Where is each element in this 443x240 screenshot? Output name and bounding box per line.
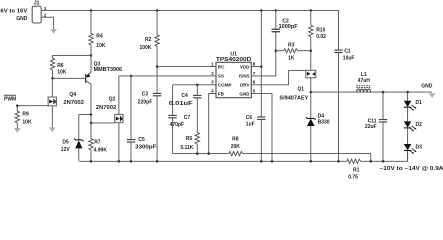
svg-text:SS: SS [218,74,224,79]
svg-text:B330: B330 [318,119,330,125]
resistor R5 [180,133,199,154]
svg-text:10K: 10K [96,43,106,49]
svg-text:220pF: 220pF [138,100,152,106]
svg-text:J1: J1 [34,1,40,7]
LED D2 [404,121,422,144]
svg-text:3300pF: 3300pF [135,145,156,151]
wire pin5 GND [251,94,272,162]
svg-text:R2: R2 [145,37,152,43]
transistor Q4 2N7002 [48,80,84,128]
wire base to Q3 [53,77,86,79]
svg-text:47uH: 47uH [358,78,371,84]
resistor R9 [15,106,32,128]
capacitor C3 [138,91,162,161]
wire FB lower rail [173,153,229,155]
connector J1 [32,6,41,23]
svg-text:−10V to −14V @ 0.9A: −10V to −14V @ 0.9A [380,166,443,172]
svg-text:5: 5 [253,88,256,93]
wire R7 column to Q2 gate [91,122,115,124]
node top rail R2 [156,9,159,12]
svg-text:PWM: PWM [4,96,16,102]
wire PWM to Q4 gate [16,105,48,107]
capacitor C2 [272,19,298,32]
wire SS rail [119,75,216,77]
resistor R6 [50,55,66,78]
transistor Q3 MMBT3906 [86,55,123,84]
svg-text:COMP: COMP [218,83,232,88]
node LED chain top [406,91,409,94]
node R5 bottom [196,152,199,155]
svg-text:10K: 10K [57,70,67,76]
transistor Q2 2N7002 [96,76,123,161]
svg-text:ISNS: ISNS [239,74,250,79]
node top rail VDD [260,9,263,12]
capacitor C5 [127,76,156,161]
capacitor C11 [365,92,387,161]
capacitor C7 [168,85,190,154]
svg-text:1: 1 [211,62,214,67]
resistor R3 [276,42,311,61]
node bottom Q2 [118,160,121,163]
wire pin6 DRV to Q1 gate [251,71,306,85]
wire pin8 VDD [251,66,261,68]
svg-text:MMBT3906: MMBT3906 [94,67,123,73]
node bottom GND col [260,160,263,163]
svg-text:R6: R6 [57,63,64,69]
resistor R1 [347,151,408,181]
svg-text:7: 7 [253,71,256,76]
svg-text:GND: GND [16,16,28,22]
svg-text:GND: GND [239,91,250,96]
wire D5 to R7 column [79,114,91,116]
svg-text:R10: R10 [316,27,325,33]
svg-text:2: 2 [211,71,214,76]
svg-text:C1: C1 [344,49,351,55]
svg-text:R1: R1 [353,167,360,173]
node R6 bottom / base [51,77,54,80]
node COMP C4 [196,84,199,87]
wire VDD column [260,10,262,117]
svg-text:2N7002: 2N7002 [96,105,117,111]
node bottom C3 [156,160,159,163]
svg-text:D2: D2 [416,122,423,128]
node SW [310,91,313,94]
resistor R8 [229,136,371,161]
wire RC to pin1 [157,66,216,68]
svg-text:C7: C7 [184,115,191,121]
svg-text:3: 3 [211,80,214,85]
node R4 bottom [90,54,93,57]
ground (output) [429,93,436,98]
svg-text:0.01uF: 0.01uF [169,101,193,107]
svg-text:22uF: 22uF [365,124,377,130]
svg-text:1uF: 1uF [246,122,255,128]
node top rail R4 [90,9,93,12]
svg-text:Si9407AEY: Si9407AEY [279,95,309,101]
svg-text:0.02: 0.02 [316,34,326,40]
node bottom R8 [370,160,373,163]
ground (input) [50,29,57,34]
svg-text:FB: FB [218,91,225,96]
wire bottom rail left [80,160,347,162]
wire J1 pin2 to ground [41,17,53,29]
resistor R10 [309,10,327,70]
node C5 top [130,75,133,78]
zener D5 12V [61,115,84,162]
inductor L1 [356,72,371,92]
node FB column bottom [207,152,210,155]
node top rail C2 [275,9,278,12]
svg-text:4: 4 [211,88,214,93]
svg-text:GND: GND [421,84,433,90]
node C11 top [382,91,385,94]
svg-text:C4: C4 [181,93,188,99]
node R3 left [275,49,278,52]
svg-text:D1: D1 [416,100,423,106]
svg-text:RC: RC [218,64,225,69]
LED D3 [404,144,422,161]
svg-text:6V to 16V: 6V to 16V [0,8,28,14]
node bottom C11 [382,160,385,163]
wire R4/R6 [53,54,92,56]
node pin8 [260,65,263,68]
op-amp U1 TPS40200D [211,51,256,97]
svg-text:Q2: Q2 [109,97,116,103]
svg-text:10K: 10K [22,120,32,126]
svg-text:470pF: 470pF [170,122,184,128]
svg-text:D3: D3 [416,144,423,150]
wire COMP rail [173,84,216,86]
svg-text:12V: 12V [61,147,71,153]
node bottom C5 [130,160,133,163]
capacitor C1 [334,10,354,161]
svg-text:R7: R7 [94,139,101,145]
transistor Q1 Si9407AEY [279,70,315,101]
diode D4 B330 [306,92,330,161]
capacitor C6 [246,115,266,161]
capacitor C4 [169,85,202,133]
svg-text:Q4: Q4 [69,92,76,98]
node R3 right [310,49,313,52]
svg-text:4.99K: 4.99K [94,147,108,153]
svg-text:2N7002: 2N7002 [63,100,84,106]
ground (Q4 source) [49,127,56,132]
node top rail R10 [310,9,313,12]
svg-text:R5: R5 [186,136,193,142]
node bottom C1 [337,160,340,163]
ground (R9) [14,128,21,133]
wire pin7 ISNS [251,10,275,76]
wire FB pin to lower [209,94,216,154]
svg-text:Q1: Q1 [297,87,304,93]
wire top VIN rail [41,9,338,11]
svg-text:R8: R8 [232,136,239,142]
svg-text:20K: 20K [231,144,241,150]
resistor R7 [89,84,108,161]
svg-text:8: 8 [253,62,256,67]
node RC [156,65,159,68]
svg-text:1000pF: 1000pF [279,24,298,30]
resistor R4 [89,10,106,55]
node bottom pin5 [271,160,274,163]
svg-text:5.11K: 5.11K [180,145,193,151]
svg-text:D5: D5 [62,140,69,146]
resistor R2 [139,10,159,93]
svg-text:6: 6 [253,80,256,85]
wire SW rail [311,91,432,93]
svg-text:10uF: 10uF [343,56,355,62]
svg-text:100K: 100K [139,45,151,51]
svg-text:R4: R4 [96,34,103,40]
svg-text:0.75: 0.75 [348,174,358,180]
svg-text:C6: C6 [246,115,253,121]
node PWM/R9 [16,104,19,107]
svg-text:VDD: VDD [240,64,250,69]
node bottom D4 [310,160,313,163]
svg-text:C5: C5 [138,137,145,143]
svg-text:R3: R3 [288,42,295,48]
node bottom R7 [90,160,93,163]
svg-text:1K: 1K [288,55,295,61]
LED D1 [404,92,422,122]
svg-text:DRV: DRV [240,83,251,88]
svg-text:C3: C3 [142,91,149,97]
svg-text:R9: R9 [22,112,29,118]
